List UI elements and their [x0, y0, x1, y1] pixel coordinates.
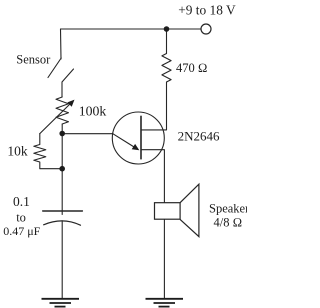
resistor R3 470 body: [162, 54, 171, 83]
potentiometer R1 100k body: [56, 97, 69, 124]
potentiometer R1 arrowhead: [67, 100, 74, 107]
speaker LS1 wire to ground: [163, 219, 165, 298]
svg-text:Sensor: Sensor: [16, 52, 51, 66]
svg-text:Speaker: Speaker: [209, 201, 247, 215]
svg-text:+9 to 18 V: +9 to 18 V: [178, 2, 236, 17]
wire node A to node B: [61, 134, 63, 169]
wire top horizontal: [61, 28, 202, 30]
transistor Q1 emitter arrowhead: [132, 144, 140, 150]
svg-text:10k: 10k: [7, 144, 28, 159]
svg-text:2N2646: 2N2646: [178, 128, 220, 143]
node B junction dot: [59, 166, 65, 172]
node V+ junction dot: [164, 26, 170, 32]
svg-text:100k: 100k: [79, 104, 107, 119]
ground GND1: [42, 299, 80, 307]
speaker LS1 cone: [180, 184, 199, 236]
terminal +V open circle: [201, 24, 211, 34]
ground GND2: [146, 299, 184, 307]
wire pot to node A: [61, 124, 63, 134]
node A junction dot: [59, 131, 65, 137]
svg-text:0.47 μF: 0.47 μF: [3, 224, 40, 238]
speaker LS1 frame: [155, 203, 181, 220]
capacitor C1 top lead: [61, 169, 63, 215]
capacitor C1 bottom lead / wire to ground: [61, 221, 63, 299]
svg-text:4/8 Ω: 4/8 Ω: [214, 215, 243, 229]
transistor Q1 circle: [112, 112, 164, 164]
potentiometer R1 wiper arrow: [40, 103, 72, 134]
capacitor C1 top plate: [43, 210, 83, 212]
capacitor C1 bottom plate: [44, 221, 81, 225]
transistor Q1 base2 lead: [141, 82, 167, 130]
svg-text:470 Ω: 470 Ω: [176, 61, 207, 75]
resistor R2 10k body: [34, 134, 62, 169]
transistor Q1 base1 lead: [141, 150, 164, 203]
wire V+ vertical: [166, 29, 168, 54]
sensor switch S1 blade: [48, 58, 61, 78]
sensor switch S1 contact: [62, 69, 74, 97]
transistor Q1 emitter line: [113, 134, 136, 148]
svg-text:to: to: [16, 210, 26, 224]
wire left vertical upper: [60, 29, 63, 59]
transistor Q1 base bar: [140, 116, 142, 159]
svg-text:0.1: 0.1: [13, 194, 30, 209]
wire emitter: [62, 133, 113, 135]
